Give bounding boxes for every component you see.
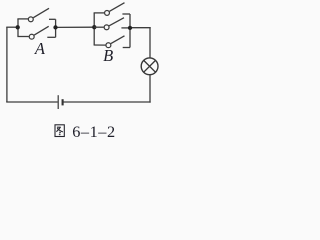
switch A1 left stub: [17, 18, 28, 20]
wire right vertical up to lamp: [149, 75, 151, 103]
switch group B right bus: [129, 14, 131, 48]
switch B3 pivot circle: [106, 43, 111, 48]
switch A2 pivot circle: [29, 34, 34, 39]
node B input junction: [92, 25, 96, 29]
switch B2 left stub: [94, 26, 104, 28]
switch group A right bus: [55, 19, 57, 37]
battery E long plate: [57, 95, 59, 109]
switch group A left bus: [17, 19, 19, 37]
wire battery to bottom right corner: [63, 101, 150, 103]
switch B1 pivot circle: [105, 10, 110, 15]
switch B2 blade (open): [109, 18, 124, 26]
battery E short plate: [62, 99, 64, 105]
wire A output to B input: [56, 26, 95, 28]
switch A1 pivot circle: [28, 17, 33, 22]
wire lamp top to corner: [149, 27, 151, 58]
switch B2 pivot circle: [104, 25, 109, 30]
switch A2 blade (open): [34, 26, 49, 35]
svg-text:B: B: [103, 46, 113, 65]
switch A2 left stub: [17, 36, 29, 38]
wire bottom left to battery: [6, 101, 57, 103]
node B output junction: [128, 26, 132, 30]
switch B1 left stub: [94, 12, 105, 14]
node A input junction: [16, 25, 20, 29]
svg-text:A: A: [34, 39, 46, 58]
switch B3 blade (open): [111, 36, 125, 44]
wire node to A input: [6, 26, 17, 28]
switch group B left bus: [93, 13, 95, 45]
switch B3 left stub: [94, 44, 106, 46]
svg-text:6–1–2: 6–1–2: [72, 122, 115, 141]
wire corner to switch group B output: [130, 27, 151, 29]
caption character tu (figure) box: [55, 125, 64, 137]
lamp L: [141, 58, 158, 75]
node A output junction: [53, 25, 57, 29]
switch B1 right contact stub: [122, 13, 130, 15]
switch B2 right contact stub: [121, 27, 130, 29]
switch A2 right contact stub: [47, 36, 55, 38]
switch A1 right contact stub: [49, 18, 56, 20]
switch B3 right contact stub: [123, 47, 130, 49]
wire left vertical: [6, 27, 8, 102]
switch B1 blade (open): [110, 3, 125, 12]
switch A1 blade (open): [33, 8, 49, 17]
